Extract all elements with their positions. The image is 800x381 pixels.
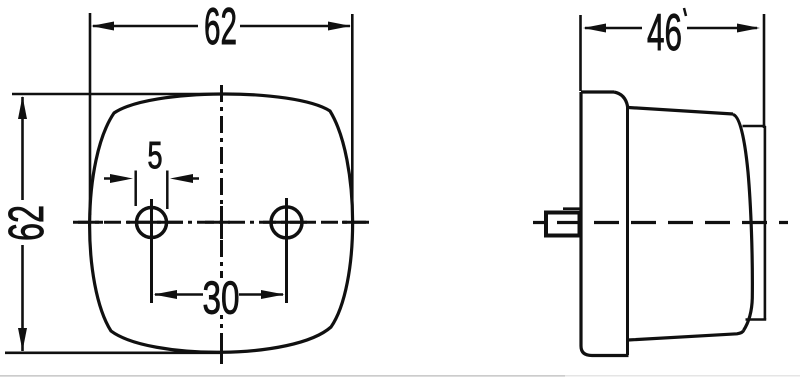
terminal plug top step [563,207,580,210]
housing top line [581,90,614,93]
housing/lens seam line [626,107,629,355]
dim 5: left extension line [134,171,137,207]
vertical centerline tick top [220,85,223,101]
dim 62 left: bottom arrowhead [18,328,27,351]
dim 62 top: dimension line [93,25,350,28]
scan artifact band bottom [0,375,565,377]
dim 5: right arrow line [183,177,199,180]
terminal plug body [546,213,580,236]
housing bottom line [592,354,629,357]
dim 62 left: dimension line [21,97,24,351]
housing left edge [579,92,582,346]
dim 30: right arrowhead [261,290,285,299]
svg-text:46: 46 [647,4,682,62]
dim 46: dimension line [585,27,757,30]
vertical centerline front view [220,85,223,364]
tick mark after 46 [684,8,686,16]
centerline solid through right hole [263,221,312,224]
dim 62 top: left arrowhead [91,22,114,31]
dim 62 left: top extension line [12,93,222,96]
centerline tick at left body edge [78,221,103,224]
mounting hole right [271,207,302,238]
mounting hole left [137,208,167,238]
dim 30: left arrowhead [154,290,178,299]
dim 46: right extension line [763,14,766,128]
lens front bottom step [746,318,767,321]
centerline tick at right body edge [342,221,366,224]
dim 30: dimension line [155,293,283,296]
svg-text:62: 62 [0,205,54,241]
lens top right corner and right edge [733,115,752,331]
lens top edge [629,108,734,115]
lamp body outline front view [90,94,353,352]
side view horizontal centerline [533,221,788,224]
svg-text:30: 30 [203,272,240,324]
housing top right corner curve [614,92,628,107]
white mask behind 30 text [204,278,238,315]
hole right vertical centerline / 30-dim extension [285,198,288,303]
svg-text:62: 62 [204,0,237,56]
dim 46: left arrowhead [583,24,606,33]
centerline solid through left hole [127,221,183,224]
dim 62 left: bottom extension line [5,351,222,354]
vertical centerline tick bottom [220,341,223,364]
dim 62 top: right extension line [351,14,354,218]
dim 5: right extension line [166,171,169,210]
dim 62 top: left extension line [89,13,92,215]
dim 5: left arrowhead [110,174,133,183]
dim 62 left: top arrowhead [18,96,27,119]
lens front top step [743,125,766,128]
hole left vertical centerline / 30-dim extension [150,199,153,303]
horizontal centerline front view [73,221,369,224]
svg-text:5: 5 [148,135,163,177]
housing bottom left corner [581,346,592,356]
centerline cross at view center [205,206,230,239]
dim 46: right arrowhead [737,24,760,33]
dim 62 top: right arrowhead [328,22,351,31]
dim 5: right arrowhead [170,174,193,183]
dim 46: left extension line [579,15,582,91]
lens front face vertical [764,126,767,320]
dim 5: left arrow line [104,177,120,180]
lens bottom edge [628,331,744,341]
